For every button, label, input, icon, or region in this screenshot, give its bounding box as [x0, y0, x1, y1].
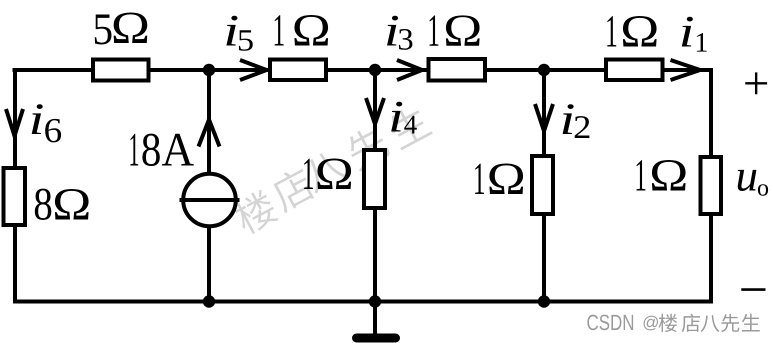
arrow i1 — [671, 60, 701, 80]
arrow i5 — [240, 60, 267, 80]
arrow i2 — [535, 104, 553, 131]
label minus — [741, 288, 765, 291]
CSDN watermark char 先 — [721, 314, 739, 333]
CSDN watermark text — [587, 315, 658, 331]
ground — [357, 334, 396, 343]
arrow i6 — [6, 109, 23, 136]
CSDN watermark char 店 — [682, 314, 700, 332]
node top i4 — [369, 64, 381, 76]
label plus — [745, 72, 767, 94]
wire left branch — [13, 68, 17, 304]
watermark char 楼 — [230, 187, 280, 237]
label 8 ohm — [35, 189, 89, 220]
resistor 8 ohm — [4, 168, 26, 225]
resistor 1 ohm i2 branch — [532, 156, 553, 214]
resistor 1 ohm top B — [429, 59, 486, 81]
label 18A — [130, 134, 193, 166]
label 1 ohm top B — [430, 15, 480, 45]
label i3 — [387, 16, 412, 50]
label i2 — [563, 104, 590, 138]
resistor 1 ohm top A — [270, 60, 326, 81]
wire i4 branch — [373, 70, 377, 302]
watermark char 先 — [342, 123, 391, 173]
watermark char 八 — [300, 147, 349, 194]
wire ground stem — [373, 301, 377, 335]
label 1 ohm i2 branch — [475, 164, 523, 194]
node bottom i4 — [369, 295, 381, 307]
CSDN watermark char 八 — [701, 315, 720, 332]
label i1 — [682, 17, 707, 52]
CSDN watermark char 楼 — [659, 314, 678, 332]
node bottom i2 — [538, 295, 550, 307]
wire right branch — [709, 68, 713, 304]
node bottom source — [203, 295, 215, 307]
arrow i3 — [397, 60, 422, 80]
label 1 ohm i4 branch — [304, 159, 351, 189]
label u_o — [738, 170, 768, 196]
node top source — [203, 64, 215, 76]
resistor 1 ohm i4 branch — [364, 150, 385, 208]
label 1 ohm top C — [607, 16, 656, 46]
node top i2 — [538, 64, 550, 76]
wire bottom rail — [13, 300, 713, 304]
label i4 — [391, 102, 417, 134]
watermark char 生 — [385, 102, 433, 150]
wire top rail — [13, 68, 714, 72]
arrow current source — [199, 120, 220, 147]
label 1 ohm output branch — [637, 160, 686, 190]
label i5 — [226, 16, 252, 51]
wire i2 branch — [542, 70, 546, 302]
resistor 1 ohm output branch — [701, 157, 722, 214]
current source circle — [183, 174, 236, 227]
watermark char 店 — [268, 165, 317, 214]
resistor 1 ohm top C — [606, 60, 663, 81]
arrow i4 — [366, 98, 384, 124]
wire current source branch — [207, 70, 211, 302]
label 5 ohm — [95, 13, 147, 45]
CSDN watermark char 生 — [742, 314, 760, 332]
resistor 5 ohm — [93, 60, 149, 81]
label 1 ohm top A — [275, 15, 328, 45]
label i6 — [32, 104, 61, 142]
current source diameter line — [180, 198, 240, 202]
